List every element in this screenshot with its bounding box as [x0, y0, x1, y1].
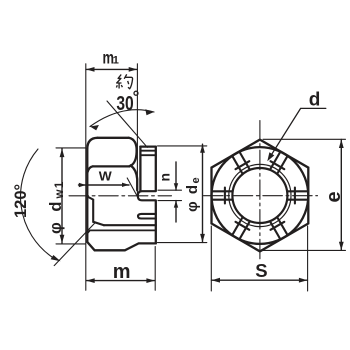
- w dimension: [79, 184, 130, 186]
- top facet boundary line: [93, 165, 129, 167]
- bore chamfer edge in section: [87, 197, 104, 226]
- sectioned slot floor below center: [138, 214, 156, 219]
- centerline axis: [69, 195, 172, 197]
- svg-text:120°: 120°: [12, 184, 30, 218]
- crown top edge: [140, 145, 155, 147]
- center slot outline: [138, 191, 156, 200]
- hexagon outline: [212, 140, 309, 252]
- crown slot surface line 2: [141, 154, 156, 156]
- phi-dw1 dimension: [56, 148, 86, 244]
- bore circle: [232, 168, 287, 223]
- slot at 90 deg: [288, 188, 309, 204]
- svg-text:m: m: [113, 261, 131, 283]
- m1 dimension: [85, 64, 87, 290]
- crown slot surface line 1: [141, 150, 156, 152]
- vertical centerline: [259, 121, 261, 260]
- slot at 210 deg: [232, 218, 250, 240]
- S dimension: [211, 226, 307, 291]
- thread major circle: [229, 164, 291, 226]
- d leader: [270, 108, 326, 157]
- phi-de dimension: [158, 146, 207, 243]
- bore wall section line: [104, 224, 156, 226]
- top-right corner chamfer arc: [129, 138, 137, 167]
- 120 degree chamfer angle arc: [21, 149, 52, 257]
- slot at 330 deg: [232, 152, 250, 174]
- approx 30 degree arc annotation: [107, 101, 147, 147]
- top chamfer arc top-left: [87, 138, 97, 149]
- slot at 30 deg: [270, 152, 288, 174]
- e dimension: [263, 139, 346, 250]
- svg-text:30: 30: [116, 92, 133, 115]
- svg-text:n: n: [157, 173, 173, 182]
- bottom edge with chamfers: [87, 242, 156, 250]
- svg-text:d: d: [309, 89, 321, 110]
- slot at 150 deg: [270, 218, 288, 240]
- facet arc left end: [87, 166, 92, 172]
- svg-text:1: 1: [113, 55, 119, 67]
- crown circle: [212, 147, 309, 244]
- nut top edge: [98, 137, 129, 139]
- slot at 270 deg: [212, 188, 233, 204]
- thread root section line: [88, 230, 156, 232]
- middle facet chamfer arc right: [131, 165, 138, 190]
- slots (6) walls and floors: [212, 152, 309, 240]
- nut body bearing face: [86, 149, 88, 243]
- chamfer extension line 1: [54, 223, 95, 266]
- horizontal centerline: [204, 195, 318, 197]
- m dimension: [154, 247, 156, 291]
- crown end face: [155, 147, 157, 244]
- svg-text:W: W: [99, 169, 113, 183]
- svg-text:e: e: [323, 191, 345, 202]
- n dimension: [158, 190, 182, 200]
- label approx (kanji yaku) drawn as strokes: [116, 74, 132, 89]
- crown junction edge: [139, 147, 141, 191]
- svg-text:S: S: [255, 260, 267, 281]
